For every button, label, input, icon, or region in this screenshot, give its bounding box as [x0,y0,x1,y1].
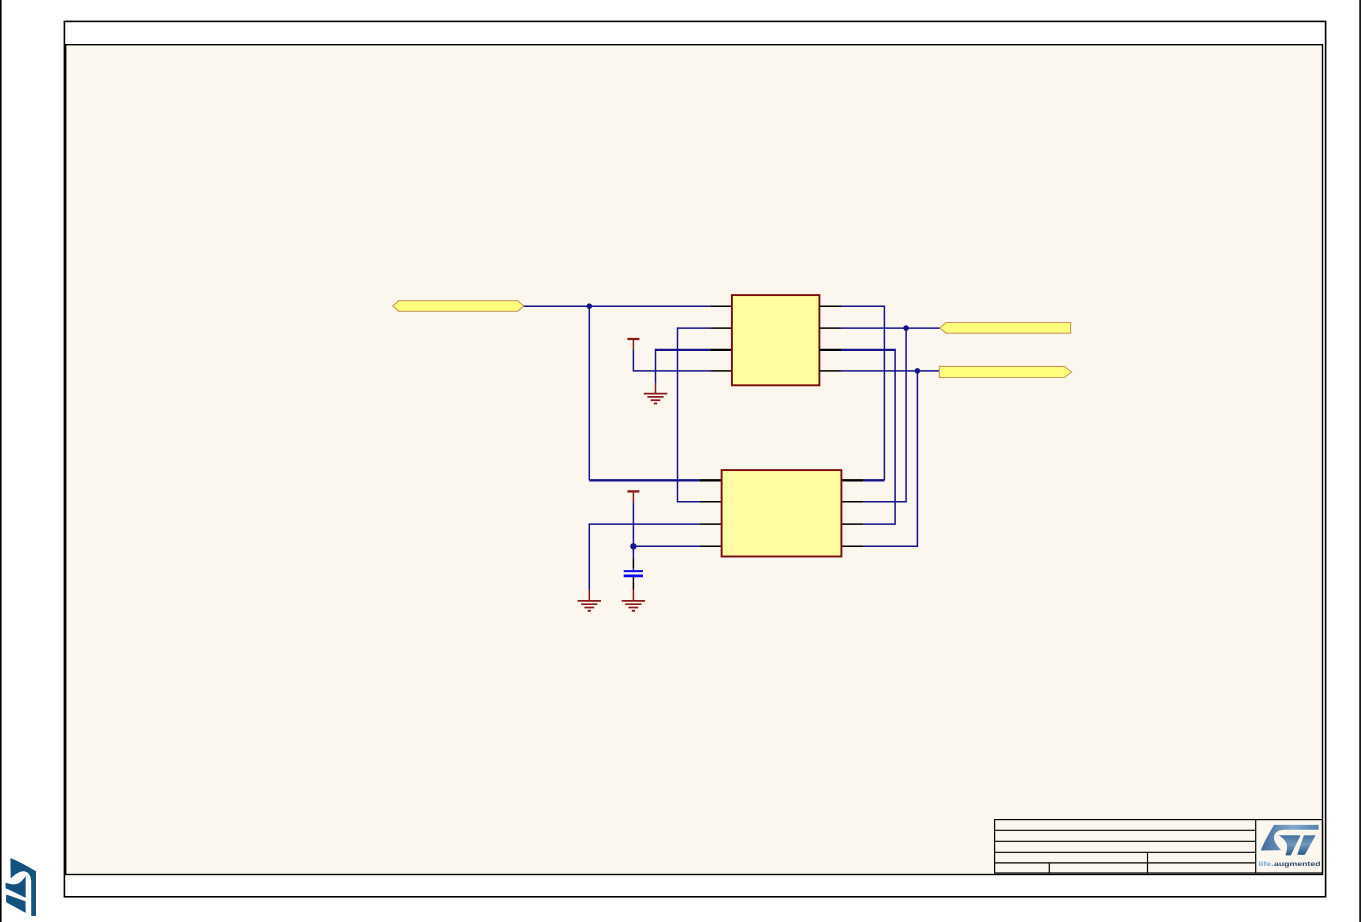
title block divider bottom [1048,863,1050,873]
wire T1 to U1 pin4 [633,349,710,371]
title block row line 1 [995,829,1256,831]
U2 pin4 stub [700,545,722,547]
life.augmented text [1259,861,1321,868]
port P1 bidirectional flag [393,301,524,312]
thick wire U1 pin3 right [841,349,895,351]
capacitor C1 [624,558,643,590]
IC U2 [722,470,842,556]
U1 pin2 stub [710,327,732,329]
U1 pin3 stub thick [710,349,732,351]
wire J2 down to U2 pin2 right [863,328,906,502]
title block row line 3 [995,851,1256,853]
svg-text:augmented: augmented [1274,861,1321,868]
U2 right pin1 stub thick [841,479,863,481]
wire down to U2 pin3 right [863,349,895,524]
title block row line 4 [995,862,1256,864]
title block row line 2 [995,840,1256,842]
junction J1 [587,303,593,309]
wire J3 down to U2 pin4 right [863,371,917,546]
thick wire to U2 pin1 right [863,479,884,481]
thick wire to U2 pin1 [589,479,699,481]
ground G2 [578,591,601,611]
ground G3 [622,590,645,611]
U1 right pin4 stub [819,370,841,372]
port P2 output flag [940,323,1071,334]
wire P1 to node J1 [524,305,590,307]
junction J4 [630,543,636,549]
U1 pin1 stub [710,305,732,307]
wire J4 to U2 pin4 [633,545,699,547]
U2 right pin4 stub [841,545,863,547]
title block logo cell divider [1255,820,1257,873]
wire T2 to junction J4 [632,502,634,546]
junction J3 [915,368,921,374]
power flag T1 [627,339,639,349]
wire U2 pin3 left run [589,524,699,591]
ST logo in title block [1261,825,1319,856]
junction J2 [903,325,909,331]
title block divider mid [1147,852,1149,873]
U2 pin1 stub [700,479,722,481]
U2 pin2 stub [700,501,722,503]
thick wire U1 pin3 left [656,349,711,351]
U2 right pin3 stub [841,523,863,525]
wire U1 pin3 to ground G1 [655,349,657,384]
wire J1 down to U2 row [588,306,590,481]
page left edge line [0,0,2,922]
wire J1 to U1 pin1 [589,305,710,307]
wire U1 pin1 right [841,306,884,480]
U2 pin3 stub [700,523,722,525]
wire U1 pin2 right to P2 [841,327,940,329]
U1 right pin3 stub thick [819,349,841,351]
U1 right pin1 stub [819,305,841,307]
U2 right pin2 stub [841,501,863,503]
page right edge line [1359,0,1361,922]
IC U1 [732,295,820,385]
port P3 output flag [939,366,1071,377]
svg-text:life.: life. [1259,861,1274,868]
ground G1 [644,383,667,403]
wire J4 down to capacitor [632,546,634,558]
wire U1 pin2 left run [678,328,711,502]
U1 right pin2 stub [819,327,841,329]
wire U1 pin4 right to P3 [841,370,939,372]
power flag T2 [627,491,639,502]
U1 pin4 stub [710,370,732,372]
title block outline [995,820,1323,873]
corner ST logo (rotated) [6,858,37,916]
